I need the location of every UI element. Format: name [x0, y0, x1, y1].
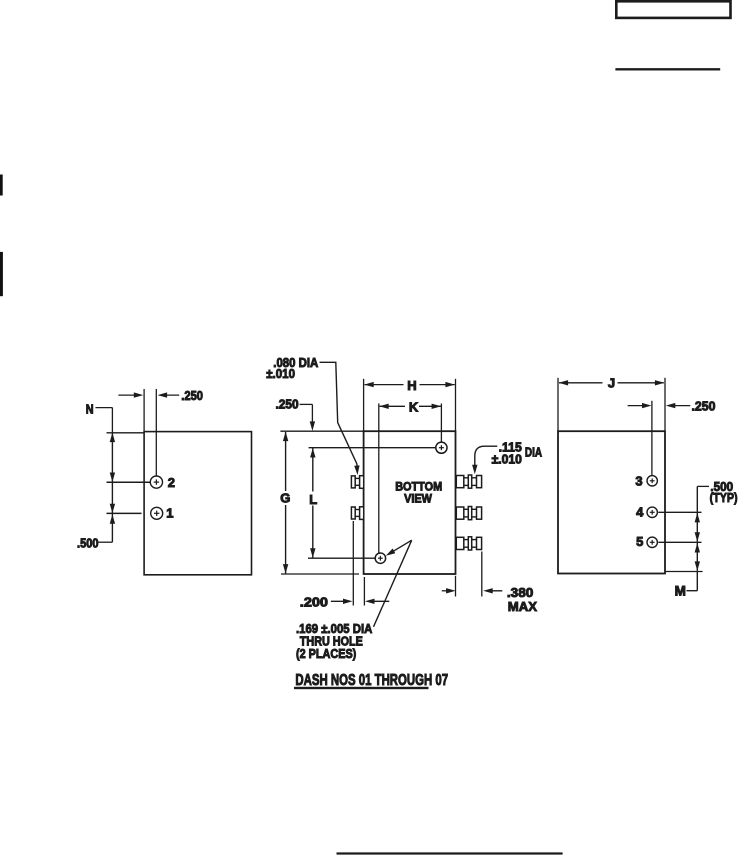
svg-text:G: G [280, 491, 290, 506]
svg-text:MAX: MAX [508, 599, 538, 614]
svg-text:(2 PLACES): (2 PLACES) [296, 646, 356, 661]
svg-text:.250: .250 [181, 388, 203, 403]
svg-text:±.010: ±.010 [266, 366, 295, 381]
svg-text:.250: .250 [276, 398, 299, 412]
svg-text:L: L [309, 492, 317, 507]
svg-text:.500: .500 [77, 536, 99, 551]
svg-text:J: J [608, 375, 615, 390]
svg-text:DIA: DIA [525, 445, 543, 460]
svg-text:±.010: ±.010 [492, 452, 522, 467]
svg-text:5: 5 [636, 534, 643, 549]
svg-text:.250: .250 [692, 399, 716, 414]
svg-text:2: 2 [168, 475, 175, 490]
svg-text:(TYP): (TYP) [710, 490, 738, 505]
svg-text:1: 1 [166, 506, 173, 521]
svg-text:.380: .380 [507, 585, 533, 600]
svg-text:4: 4 [636, 504, 644, 519]
svg-text:.200: .200 [300, 595, 328, 610]
svg-text:VIEW: VIEW [404, 492, 432, 506]
svg-text:3: 3 [635, 474, 642, 489]
svg-text:N: N [86, 401, 94, 416]
svg-text:H: H [407, 378, 416, 393]
svg-text:M: M [675, 584, 686, 599]
svg-text:DASH NOS 01 THROUGH 07: DASH NOS 01 THROUGH 07 [295, 672, 448, 689]
svg-text:K: K [409, 399, 419, 414]
